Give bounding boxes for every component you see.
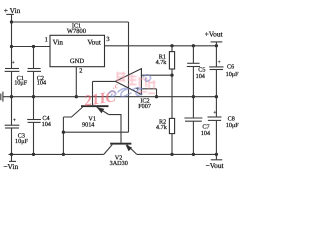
svg-text:2: 2 (79, 67, 82, 74)
node junction dot R1 top (170, 44, 173, 47)
capacitor edge mark at left border (0, 94, 2, 101)
node -Vin terminal tick (9, 160, 16, 162)
transistor V2 emitter arrow (126, 145, 133, 151)
transistor V2 collector leg (104, 145, 112, 155)
wire non-inverting input right (141, 88, 156, 90)
wire non-inverting input down to mid rail (156, 89, 158, 97)
svg-text:W7800: W7800 (67, 28, 86, 35)
transistor V2 emitter leg (127, 145, 137, 155)
op-amp IC1 W7800 box (50, 35, 105, 66)
wire C1 bottom to mid rail (11, 71, 13, 96)
watermark pink characters (117, 72, 156, 94)
wire C7 bottom to bottom rail (192, 121, 194, 154)
node junction dot collector wire on bottom rail (62, 153, 65, 156)
capacitor C8 plates (208, 116, 222, 118)
node -Vout stub (215, 154, 217, 159)
wire V1 collector down to bottom rail (62, 117, 64, 154)
svg-text:+: + (12, 60, 15, 66)
svg-text:104: 104 (196, 73, 205, 80)
wire regulated output rail from pin 3 (105, 45, 217, 47)
node -Vout terminal tick (211, 159, 223, 161)
resistor R1 top lead (171, 46, 173, 52)
wire op-amp output left (93, 80, 116, 82)
capacitor C1 plates (5, 68, 19, 70)
node junction dot C6-C8 mid rail (215, 95, 218, 98)
wire C5 bottom to mid rail (192, 67, 194, 97)
wire +Vin stub down to top rail (11, 14, 13, 22)
svg-text:+: + (218, 60, 221, 66)
wire R1 bottom to R2 top through mid rail (171, 69, 173, 118)
node junction dot V+ line on collector wire (62, 131, 65, 134)
svg-text:1: 1 (45, 37, 48, 44)
node junction dot C5 top (192, 44, 195, 47)
wire C4 bottom to bottom rail (33, 122, 35, 154)
node junction dot C2 top (32, 45, 35, 48)
node junction dot pin1 wire left (10, 45, 13, 48)
transistor V1 collector leg (63, 107, 82, 117)
wire R2 bottom lead (171, 134, 173, 155)
node +Vin terminal tick (6, 13, 14, 15)
node junction dot C2-C4 mid rail (32, 95, 35, 98)
node junction dot at +Vin rail (10, 20, 13, 23)
capacitor C5 top lead (192, 46, 194, 64)
op-amp IC2 F007 triangle (115, 69, 141, 95)
svg-text:−Vout: −Vout (206, 161, 225, 170)
transistor V1 emitter arrow (97, 107, 105, 113)
node junction dot -Vin on bottom rail (10, 153, 13, 156)
svg-text:+: + (213, 110, 216, 116)
node junction dot R2 on bottom rail (170, 153, 173, 156)
svg-text:9014: 9014 (82, 121, 94, 128)
node junction dot -Vout (215, 153, 218, 156)
wire V1 emitter to V2 base (109, 115, 121, 143)
svg-text:3: 3 (106, 36, 109, 43)
transistor V2 base bar (110, 143, 131, 145)
wire op-amp inverting input (141, 74, 172, 76)
capacitor C5 plates (187, 62, 199, 64)
svg-text:+: + (13, 118, 16, 124)
svg-text:GND: GND (70, 58, 85, 65)
wire +Vout stub (215, 42, 217, 46)
svg-text:104: 104 (201, 130, 210, 137)
wire top unregulated rail (12, 21, 129, 23)
svg-text:3AD30: 3AD30 (110, 160, 128, 167)
capacitor C6 plates (209, 66, 223, 68)
svg-text:−Vin: −Vin (3, 162, 18, 171)
capacitor C8 top lead (215, 97, 217, 117)
node junction dot C7 bottom (192, 153, 195, 156)
capacitor C2 plates (28, 68, 41, 70)
svg-text:10μF: 10μF (14, 79, 28, 86)
capacitor C7 plates (184, 117, 202, 119)
svg-text:4.7k: 4.7k (156, 59, 168, 66)
wire IC1 pin 1 (12, 46, 51, 48)
capacitor C4 top lead (33, 97, 35, 120)
node junction dot +Vout (215, 44, 218, 47)
wire C2 bottom to mid rail (33, 71, 35, 96)
wire mid common rail (3, 96, 216, 98)
watermark 21IC red (81, 81, 122, 110)
svg-text:+ Vin: + Vin (4, 6, 21, 15)
wire bottom rail right segment (137, 153, 217, 155)
svg-text:C6: C6 (227, 63, 234, 70)
node junction dot C4 on bottom rail (32, 153, 35, 156)
wire C3 bottom to bottom rail (11, 128, 13, 154)
svg-text:F007: F007 (138, 103, 151, 110)
wire op-amp output down to V1 base (92, 81, 94, 105)
wire C6 bottom to mid rail (215, 70, 217, 97)
svg-text:104: 104 (42, 121, 51, 128)
svg-text:+Vout: +Vout (205, 30, 224, 39)
svg-text:Vout: Vout (87, 39, 100, 47)
node junction dot C5-C7 mid rail (192, 95, 195, 98)
wire left input rail down (11, 22, 13, 69)
svg-text:10μF: 10μF (226, 71, 240, 78)
svg-text:10μF: 10μF (226, 122, 240, 129)
wire C8 bottom to bottom rail (215, 120, 217, 154)
resistor R2 body (169, 118, 174, 133)
transistor V1 base bar (81, 105, 109, 107)
watermark blue script (109, 75, 151, 97)
node junction dot inverting input (170, 74, 173, 77)
node junction dot pin2 on mid rail (75, 95, 78, 98)
node +Vout terminal tick (211, 41, 223, 43)
capacitor C2 top lead (33, 47, 35, 69)
wire bottom rail left segment (9, 153, 104, 155)
capacitor C6 top lead (215, 46, 217, 67)
capacitor C4 plates (27, 119, 41, 121)
transistor V1 emitter leg (97, 107, 109, 115)
svg-text:104: 104 (37, 79, 46, 86)
node -Vin stub (11, 154, 13, 161)
capacitor C3 top lead (11, 97, 13, 126)
svg-text:10μF: 10μF (15, 138, 29, 145)
resistor R1 body (169, 52, 174, 69)
wire V+ line horizontal to V1 collector node (63, 131, 128, 133)
node junction dot non-inverting on mid rail (155, 95, 158, 98)
wire IC1 pin 2 down (75, 67, 77, 97)
node junction dot C1-C3 mid rail (10, 95, 13, 98)
capacitor C3 plates (5, 124, 20, 126)
svg-text:4.7k: 4.7k (156, 124, 168, 131)
svg-text:Vin: Vin (53, 39, 64, 47)
wire V+ line from top rail down (128, 22, 130, 132)
capacitor C7 top lead (192, 97, 194, 118)
